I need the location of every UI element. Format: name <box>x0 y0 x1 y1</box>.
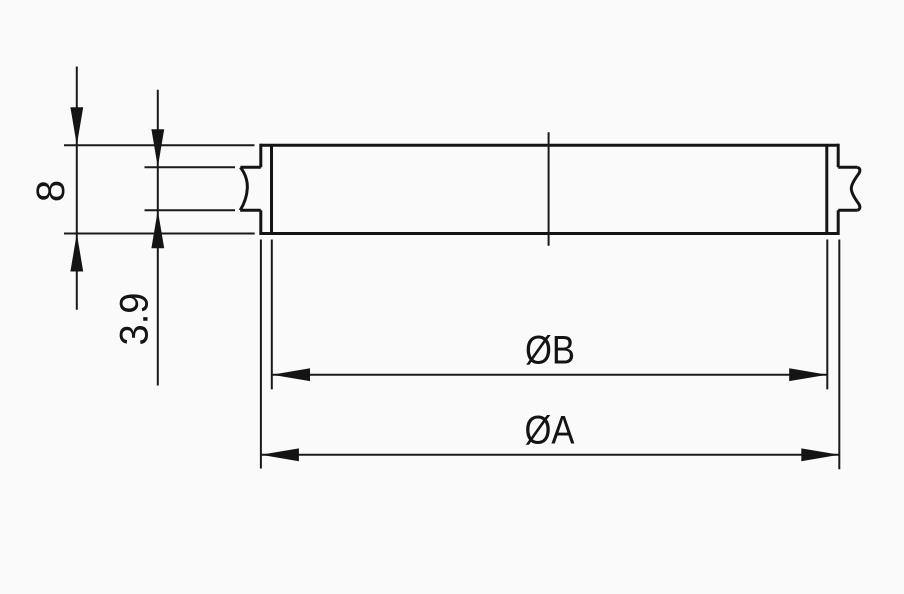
part left step upper <box>259 144 262 168</box>
dim 3.9 line <box>157 90 159 386</box>
dim B arrow right <box>789 368 827 381</box>
dim 8 extension line bottom <box>64 233 255 235</box>
web lower line left piece <box>240 209 261 212</box>
dim B line <box>272 374 827 376</box>
part right bore line <box>825 145 828 233</box>
dim A extension line left <box>260 240 262 469</box>
dim 3.9 arrow top <box>151 129 164 167</box>
dim B arrow left <box>272 368 310 381</box>
left break wave <box>240 167 247 210</box>
dim 8 arrow bottom <box>70 234 83 272</box>
svg-text:3.9: 3.9 <box>113 293 157 346</box>
dim B extension line left <box>271 240 273 390</box>
dim 8 extension line top <box>64 144 255 146</box>
web upper line left piece <box>240 166 260 169</box>
dim A extension line right <box>838 240 840 470</box>
dim 3.9 extension line top <box>145 166 236 168</box>
svg-text:ØB: ØB <box>525 329 575 373</box>
right break wave <box>851 167 860 210</box>
part left bore line <box>270 145 273 233</box>
part right step upper <box>837 144 840 168</box>
dim A line <box>261 454 839 456</box>
centerline <box>548 132 550 246</box>
web lower line right piece <box>838 209 857 212</box>
part top edge <box>261 144 838 147</box>
dim 8 arrow top <box>70 107 83 145</box>
part right step lower <box>837 210 840 235</box>
part left step lower <box>259 210 262 235</box>
dim A arrow left <box>261 448 299 461</box>
dim 3.9 extension line bottom <box>145 209 236 211</box>
dim A arrow right <box>801 448 839 461</box>
svg-text:ØA: ØA <box>525 409 575 453</box>
part bottom edge <box>261 232 838 235</box>
svg-text:8: 8 <box>29 180 73 202</box>
dim 8 line <box>76 67 78 310</box>
dim 3.9 arrow bottom <box>151 210 164 248</box>
dim B extension line right <box>826 240 828 390</box>
web upper line right piece <box>838 166 857 169</box>
